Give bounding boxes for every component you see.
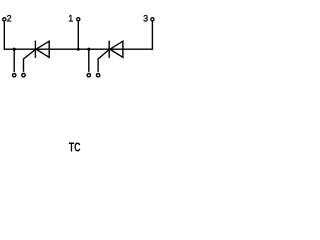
svg-text:2: 2 <box>7 14 12 24</box>
terminal 2 circle <box>3 18 6 21</box>
svg-text:3: 3 <box>143 14 148 24</box>
wire: V1 auxiliary cathode stub <box>13 49 15 72</box>
wire: main horizontal bus from terminal 2 corner to terminal 3 corner <box>4 21 152 49</box>
wire: terminal 1 vertical drop to bus <box>77 21 79 49</box>
thyristor V1 cathode bar <box>34 41 36 58</box>
thyristor V1 gate lead <box>24 50 36 72</box>
junction dot at V2 aux cathode <box>87 48 90 51</box>
thyristor V2 gate lead <box>98 50 109 72</box>
junction dot at V1 aux cathode <box>13 48 16 51</box>
terminal 3 circle <box>151 18 154 21</box>
terminal 1 circle <box>77 18 80 21</box>
junction dot at terminal 1 bus tap <box>77 48 80 51</box>
thyristor V2 cathode bar <box>108 41 110 58</box>
thyristor V2 triangle <box>110 41 123 57</box>
svg-text:TC: TC <box>69 141 81 155</box>
V2 aux cathode terminal circle <box>87 74 90 77</box>
V2 gate terminal circle <box>96 74 99 77</box>
thyristor V1 triangle <box>36 41 49 57</box>
wire: V2 auxiliary cathode stub <box>88 49 90 72</box>
svg-text:1: 1 <box>68 14 73 24</box>
V1 aux cathode terminal circle <box>13 74 16 77</box>
V1 gate terminal circle <box>22 74 25 77</box>
